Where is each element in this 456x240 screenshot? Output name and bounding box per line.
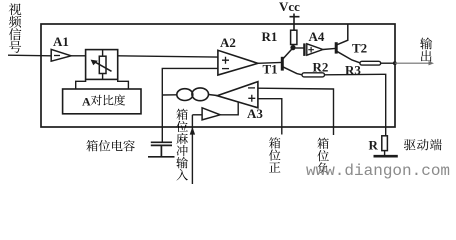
svg-text:A: A [82, 95, 91, 109]
svg-text:T2: T2 [352, 41, 367, 56]
svg-text:T1: T1 [263, 62, 278, 77]
svg-text:A4: A4 [309, 29, 325, 44]
svg-text:www.diangon.com: www.diangon.com [306, 162, 450, 180]
svg-text:A2: A2 [220, 35, 236, 50]
svg-text:R1: R1 [262, 29, 278, 44]
svg-text:A3: A3 [247, 106, 263, 121]
svg-text:R2: R2 [313, 59, 329, 74]
svg-text:R3: R3 [345, 63, 361, 78]
svg-text:Vcc: Vcc [279, 0, 300, 14]
svg-text:R: R [369, 138, 379, 153]
svg-text:A1: A1 [53, 34, 69, 49]
